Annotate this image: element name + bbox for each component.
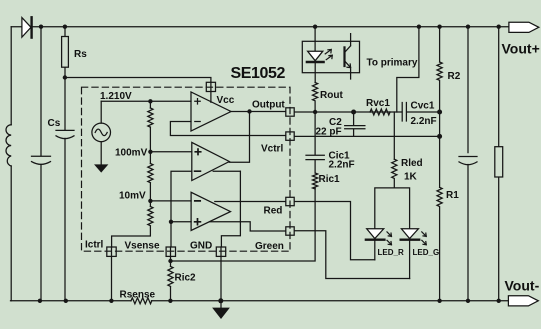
svg-text:Rs: Rs bbox=[74, 49, 87, 60]
label 10mV bbox=[119, 191, 146, 202]
svg-text:Ric2: Ric2 bbox=[175, 273, 197, 284]
capacitor C input (polarized) bbox=[32, 156, 51, 164]
LED LED_R bbox=[367, 229, 384, 239]
wire Rs/Cs vertical x=65 bbox=[64, 27, 66, 301]
svg-text:2.2nF: 2.2nF bbox=[411, 116, 437, 127]
svg-text:LED_G: LED_G bbox=[413, 248, 440, 257]
svg-text:Red: Red bbox=[264, 206, 283, 217]
resistor R2 bbox=[439, 27, 441, 62]
label 100mV bbox=[115, 148, 148, 159]
capacitor Cvc1 bbox=[402, 103, 406, 122]
svg-text:To primary: To primary bbox=[367, 58, 418, 69]
wire Vsense down bbox=[170, 256, 172, 266]
pin Vsense bbox=[166, 247, 175, 256]
label Vcc bbox=[217, 95, 235, 106]
resistor R1 bbox=[439, 136, 441, 187]
wire Vctrl external bbox=[294, 135, 439, 137]
connector Vout- bbox=[508, 296, 538, 306]
resistor Rout bbox=[313, 83, 318, 113]
svg-text:Rvc1: Rvc1 bbox=[366, 98, 390, 109]
svg-text:Vout+: Vout+ bbox=[502, 41, 540, 57]
wire Red external bbox=[294, 202, 375, 260]
wire LED header bbox=[375, 188, 410, 229]
pin Ictrl bbox=[107, 247, 116, 256]
resistor chain R a bbox=[148, 108, 153, 127]
wire To-primary step to rail bbox=[397, 27, 419, 112]
label Green bbox=[255, 241, 284, 252]
label Red bbox=[264, 206, 283, 217]
ground symbol bbox=[220, 301, 222, 309]
wire Green external bbox=[294, 231, 409, 279]
resistor Rled 1K bbox=[393, 112, 395, 159]
wire to Green pin staircase bbox=[240, 222, 285, 231]
svg-text:Ric1: Ric1 bbox=[319, 174, 341, 185]
wire compensation return y=261 bbox=[171, 187, 316, 261]
label GND bbox=[190, 241, 212, 252]
op-amp U1C plus line bbox=[171, 221, 240, 223]
svg-text:Vcc: Vcc bbox=[217, 95, 235, 106]
svg-text:10mV: 10mV bbox=[119, 191, 146, 202]
op-amp U1B bbox=[192, 142, 230, 180]
op-amp U1C bbox=[191, 192, 230, 230]
svg-text:R1: R1 bbox=[446, 190, 459, 201]
svg-text:Green: Green bbox=[255, 241, 284, 252]
label Output bbox=[252, 100, 285, 111]
voltage source 1.210V bbox=[100, 101, 102, 123]
wire top rail bbox=[11, 26, 509, 28]
op-amp U1B minus line bbox=[171, 171, 240, 247]
label Ictrl bbox=[85, 240, 104, 251]
resistor Rs bbox=[62, 37, 69, 68]
capacitor C2 bbox=[345, 112, 365, 136]
label Vctrl bbox=[261, 143, 283, 154]
wire Ictrl to rail bbox=[111, 256, 113, 300]
wire left vertical bbox=[10, 27, 12, 301]
label SE1052 bbox=[231, 65, 286, 82]
optocoupler LED bbox=[308, 51, 323, 61]
svg-text:22 pF: 22 pF bbox=[316, 127, 342, 138]
wire bottom rail bbox=[11, 300, 509, 302]
resistor Ric2 bbox=[168, 266, 173, 286]
wire Output external bbox=[294, 111, 439, 113]
svg-text:R2: R2 bbox=[448, 71, 461, 82]
label Rsense bbox=[120, 290, 156, 301]
svg-text:Vsense: Vsense bbox=[125, 241, 160, 252]
svg-text:Cvc1: Cvc1 bbox=[411, 101, 435, 112]
svg-text:GND: GND bbox=[190, 241, 212, 252]
svg-text:SE1052: SE1052 bbox=[231, 65, 286, 82]
IC box SE1052 dashed border bbox=[82, 87, 291, 251]
svg-text:LED_R: LED_R bbox=[378, 248, 404, 257]
wire GND to rail bbox=[220, 256, 222, 300]
wire Vcc feed bbox=[65, 78, 211, 103]
inductor L primary winding bbox=[6, 125, 11, 166]
label Vsense bbox=[125, 241, 160, 252]
resistor chain R b bbox=[148, 164, 153, 183]
wire 100mV tap bbox=[150, 151, 191, 153]
svg-text:Output: Output bbox=[252, 100, 285, 111]
svg-text:Vout-: Vout- bbox=[505, 278, 540, 294]
capacitor output filter bbox=[459, 27, 477, 301]
resistor Rvc1 bbox=[370, 109, 390, 115]
svg-text:Cs: Cs bbox=[48, 118, 61, 129]
pin Output bbox=[286, 108, 294, 116]
op-amp U1A output wire bbox=[229, 112, 285, 163]
op-amp U1C red output line bbox=[215, 201, 286, 203]
wire source to node bbox=[101, 100, 191, 102]
svg-text:Rsense: Rsense bbox=[120, 290, 156, 301]
svg-text:Vctrl: Vctrl bbox=[261, 143, 283, 154]
optocoupler phototransistor bbox=[343, 47, 345, 66]
pin Vctrl bbox=[286, 132, 294, 140]
resistor chain R c bbox=[148, 207, 153, 226]
resistor Ric1 bbox=[313, 173, 318, 189]
capacitor Cic1 bbox=[306, 112, 324, 173]
svg-text:Rout: Rout bbox=[320, 90, 343, 101]
wire anode branch x=41 bbox=[40, 27, 42, 301]
svg-text:1.210V: 1.210V bbox=[100, 91, 132, 102]
pin GND bbox=[216, 247, 225, 256]
divider chain x=150.4 bbox=[112, 101, 151, 247]
svg-text:100mV: 100mV bbox=[115, 148, 148, 159]
pin Vcc bbox=[206, 82, 215, 91]
pin Green bbox=[286, 227, 294, 235]
op-amp U1A bbox=[191, 92, 231, 131]
resistor Rsense bbox=[131, 298, 152, 304]
pin Red bbox=[286, 197, 294, 205]
svg-text:1K: 1K bbox=[404, 172, 418, 183]
wire 10mV tap bbox=[150, 200, 191, 202]
net vertical x=240.4 bbox=[221, 171, 240, 247]
svg-text:Ictrl: Ictrl bbox=[85, 240, 104, 251]
op-amp U1A feedback wrap bbox=[170, 122, 285, 136]
ground arrow below source bbox=[100, 142, 102, 165]
svg-text:2.2nF: 2.2nF bbox=[329, 160, 355, 171]
LED LED_G bbox=[401, 229, 418, 239]
optocoupler box bbox=[302, 41, 359, 72]
svg-text:Rled: Rled bbox=[401, 158, 423, 169]
optocoupler emission arrows bbox=[325, 49, 331, 54]
resistor output load bbox=[498, 27, 500, 301]
diode D1 bbox=[22, 18, 31, 38]
optocoupler LED wire bbox=[314, 27, 316, 52]
capacitor Cs bbox=[56, 130, 74, 138]
pin through-wires bbox=[112, 82, 222, 256]
connector Vout+ bbox=[509, 22, 539, 32]
